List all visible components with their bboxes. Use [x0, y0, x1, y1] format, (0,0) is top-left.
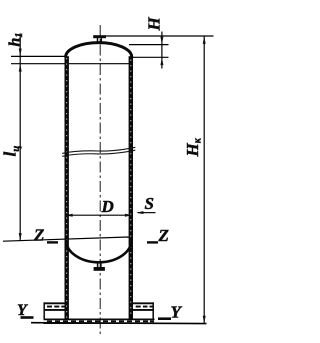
- bottom elliptical head: [66, 240, 132, 263]
- tangent weld line of bottom head: [3, 237, 129, 241]
- extension line knuckle start (right): [133, 56, 169, 58]
- dimension line D (inner diameter): [66, 214, 132, 216]
- shell right wall: [129, 56, 133, 319]
- shell left wall: [65, 56, 69, 319]
- drain nozzle neck: [97, 261, 99, 268]
- top nozzle neck: [97, 38, 99, 43]
- right chair outer edge: [152, 302, 154, 319]
- svg-text:Z: Z: [33, 226, 44, 245]
- svg-text:Y: Y: [17, 302, 28, 319]
- left chair outer edge: [43, 302, 45, 319]
- wavy break line (lower): [62, 150, 135, 156]
- right bolt-chair top plate (hatched box): [132, 303, 155, 310]
- extension line knuckle start (left): [11, 55, 66, 57]
- section stroke Y right: [158, 317, 171, 320]
- arrow down tip at apex line: [160, 37, 163, 45]
- drain nozzle flange: [94, 267, 105, 271]
- svg-text:S: S: [145, 194, 154, 213]
- dimension line H (top right small): [161, 32, 163, 69]
- top elliptical head: [66, 43, 132, 58]
- svg-text:H: H: [145, 17, 164, 32]
- section stroke Y left: [21, 316, 34, 319]
- leader S (wall thickness): [138, 212, 156, 214]
- arrow right tip at right wall: [125, 214, 133, 217]
- tangent weld line of top head: [11, 63, 131, 65]
- wavy break line (upper): [62, 147, 135, 153]
- svg-text:Y: Y: [171, 303, 183, 322]
- base plate (hatched band): [44, 319, 155, 323]
- extension line from nozzle flange top: [106, 35, 214, 37]
- svg-text:Z: Z: [158, 226, 169, 245]
- arrow down tip at flange-start line: [19, 49, 22, 57]
- section stroke Z left: [47, 241, 58, 243]
- svg-text:D: D: [101, 197, 114, 216]
- section stroke Z right: [147, 241, 158, 243]
- arrow up tip at flange-top line: [203, 36, 206, 44]
- dimension line Hk (right tall): [203, 36, 205, 324]
- arrow down tip at bottom tangent: [19, 233, 22, 241]
- dimension line l_c (left vertical): [19, 33, 21, 241]
- arrow down tip at ground line: [203, 316, 206, 324]
- arrow left tip at left wall: [65, 214, 73, 217]
- top nozzle flange: [93, 35, 106, 38]
- left bolt-chair top plate (hatched box): [44, 303, 67, 310]
- centerline (vertical axis, dash-dot): [99, 25, 101, 334]
- ground line: [31, 322, 207, 325]
- arrow up tip at tangent line: [19, 64, 22, 72]
- arrow up tip at knuckle line: [160, 57, 163, 65]
- extension line from head apex (right): [129, 44, 169, 46]
